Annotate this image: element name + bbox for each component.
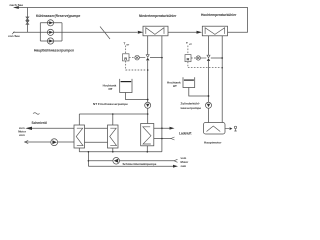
wire HT bypass branch: [211, 57, 222, 59]
svg-text:zum: zum: [181, 164, 187, 168]
wire oil connectors A to B: [85, 128, 108, 142]
wire tank NT to pump suction: [126, 93, 148, 100]
arrow into HT cooler: [197, 31, 203, 34]
tick at von See inlet: [12, 32, 15, 35]
signal wire controller NT to mixed sensor: [126, 61, 147, 70]
node HT bypass junction: [221, 57, 223, 59]
svg-text:Niedertemperaturkühler: Niedertemperaturkühler: [139, 14, 177, 18]
wire NT cold downcomer: [147, 36, 149, 103]
cooler oil HX B: [108, 125, 119, 148]
svg-text:vom: vom: [19, 133, 25, 137]
wire charge air out: [154, 127, 172, 129]
node tank NT junction: [147, 99, 149, 101]
pump Schmieröl umwälz: [113, 158, 120, 165]
engine Hauptmotor: [204, 123, 226, 135]
arrow into NT cooler: [138, 31, 144, 34]
cooler oil HX A: [74, 125, 85, 148]
pump oil circulating: [51, 139, 58, 146]
wire actuator to valve HT: [201, 57, 207, 59]
wire oil line to motor: [28, 127, 74, 129]
signal wire T to controller HT: [187, 46, 189, 55]
arrow to sea: [13, 6, 19, 9]
valve NT three-way thermostat: [146, 55, 149, 58]
wire charge air in: [154, 138, 171, 140]
pump P1 (reserve): [47, 20, 53, 26]
tank Hochtank HT: [183, 77, 195, 87]
arrow vom Motor bottom open: [174, 159, 178, 162]
svg-text:T: T: [186, 41, 188, 45]
arrow Ladeluft in open: [171, 137, 175, 140]
svg-text:R: R: [124, 56, 127, 61]
svg-text:nach See: nach See: [10, 3, 24, 7]
wire NT to HT cooler: [168, 31, 197, 33]
arrow vom Motor oil open: [25, 140, 29, 143]
svg-text:wasserpumpe: wasserpumpe: [180, 106, 202, 110]
node riser junction: [88, 151, 90, 153]
pump group manifold box: [40, 23, 62, 41]
pump cylinder cooling water: [206, 102, 212, 108]
wire NT bypass branch: [150, 57, 162, 59]
mark tilde: [33, 113, 40, 115]
arrow Ladeluft out: [170, 127, 175, 130]
svg-text:Schmieröl: Schmieröl: [32, 121, 48, 125]
cooler NT heat exchanger: [143, 26, 168, 36]
cooler HT heat exchanger: [202, 26, 227, 36]
controller R NT: [123, 54, 130, 61]
wire circulating line riser: [87, 152, 89, 166]
signal wire controller HT to engine outlet sensor: [188, 62, 221, 68]
wire actuator to valve NT: [139, 57, 145, 59]
node header junctions: [112, 151, 114, 153]
node manifold junctions: [147, 113, 149, 115]
node sensor tap NT: [147, 69, 149, 71]
arrow zum Motor bottom: [173, 165, 178, 168]
engine outlet fitting: [225, 128, 229, 130]
cooler charge air HX C: [141, 124, 154, 146]
wire NT hot return riser: [161, 36, 163, 152]
svg-text:Hauptmotor: Hauptmotor: [204, 140, 222, 144]
wire HT hot return riser: [221, 36, 223, 123]
slash mark on suction line: [100, 27, 110, 40]
wire return line riser: [88, 165, 174, 167]
valve V1: [26, 17, 29, 20]
actuator NT: [135, 55, 140, 60]
signal wire controller HT to actuator: [191, 57, 196, 59]
svg-text:R: R: [187, 57, 190, 62]
wire seawater discharge top line: [15, 8, 248, 33]
wire HT pump to engine: [208, 108, 210, 122]
arrow zum Motor oil: [25, 127, 32, 130]
svg-text:Kühlwasser(Reserve)pumpe: Kühlwasser(Reserve)pumpe: [36, 14, 81, 18]
valve V2: [26, 21, 29, 24]
wire bottom port stubs: [79, 146, 147, 152]
svg-text:NT Frischwasserpumpe: NT Frischwasserpumpe: [93, 102, 128, 106]
wire tank HT to pump suction: [189, 88, 209, 97]
svg-text:NT: NT: [109, 87, 113, 91]
svg-text:Hauptkühlwasserpumpen: Hauptkühlwasserpumpen: [34, 49, 74, 53]
svg-text:HT: HT: [173, 84, 177, 88]
valve HT three-way thermostat: [207, 55, 210, 58]
svg-text:Schmierölumwälzpumpe: Schmierölumwälzpumpe: [123, 162, 157, 166]
svg-text:Ladeluft: Ladeluft: [179, 131, 192, 135]
signal wire T to controller NT: [125, 46, 127, 54]
svg-text:von See: von See: [8, 34, 20, 38]
pump P3 (main cooling water): [47, 38, 53, 44]
wire bottom header: [79, 151, 162, 153]
signal wire controller NT to actuator: [129, 57, 135, 59]
node tank HT junction: [208, 95, 210, 97]
wire HT cold downcomer: [208, 36, 210, 103]
node sensor tap HT: [221, 67, 223, 69]
pump P2 (main cooling water): [47, 29, 53, 35]
pump NT fresh water: [145, 102, 151, 108]
svg-text:Hochtemperaturkühler: Hochtemperaturkühler: [201, 13, 237, 17]
wire NT pump discharge manifold: [79, 108, 147, 125]
actuator HT: [196, 56, 200, 60]
node NT bypass junction: [161, 57, 163, 59]
tank Hochtank NT: [120, 79, 132, 93]
svg-text:T: T: [124, 41, 126, 45]
wire riser from von See line to discharge: [26, 8, 28, 33]
wire oil line from motor: [25, 141, 74, 143]
wire circulating line: [88, 160, 174, 162]
controller R HT: [185, 55, 191, 62]
wire von See suction line: [13, 31, 138, 33]
